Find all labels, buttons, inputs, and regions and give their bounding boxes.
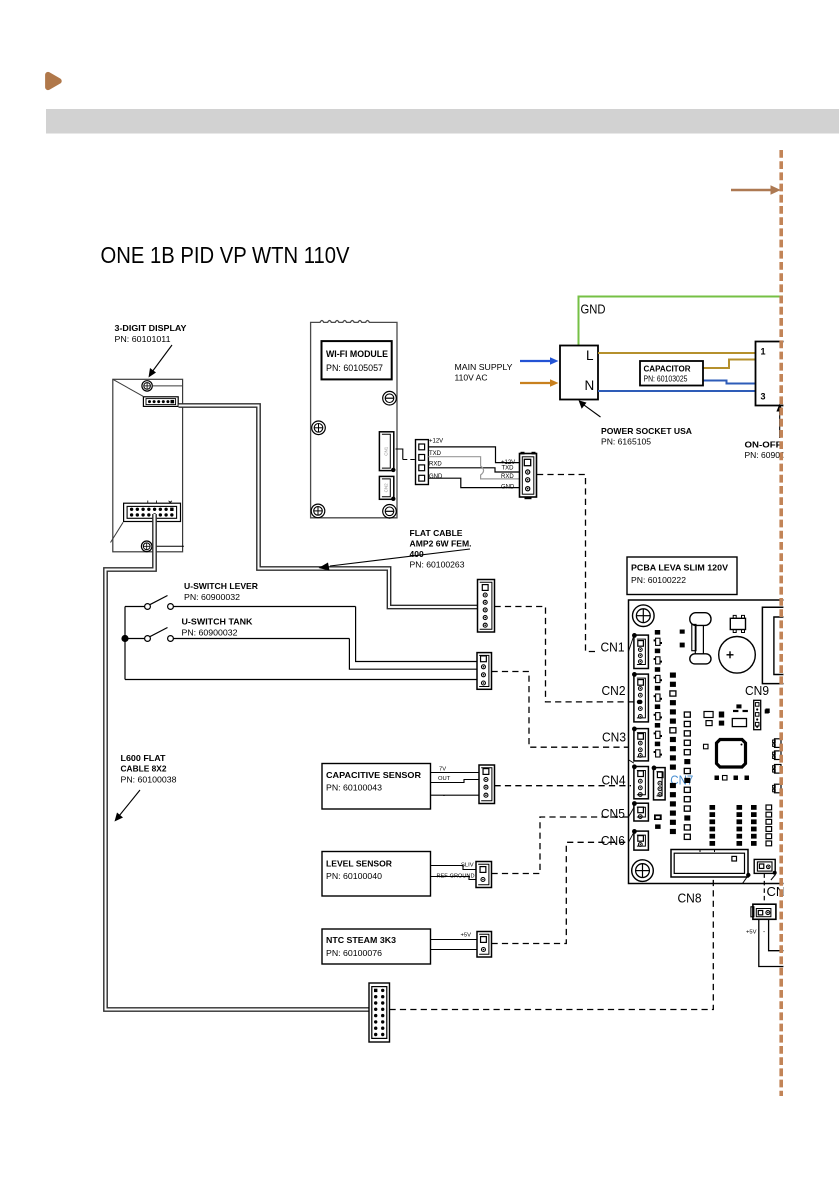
svg-text:PN: 60100222: PN: 60100222: [631, 575, 686, 585]
svg-text:WI-FI MODULE: WI-FI MODULE: [326, 349, 388, 359]
svg-text:400: 400: [410, 549, 424, 559]
svg-text:3: 3: [761, 392, 766, 402]
svg-text:+12V: +12V: [429, 439, 443, 445]
svg-text:POWER SOCKET USA: POWER SOCKET USA: [601, 426, 692, 436]
svg-text:U-SWITCH TANK: U-SWITCH TANK: [182, 617, 254, 627]
svg-text:+5V: +5V: [746, 930, 757, 936]
svg-text:FLAT CABLE: FLAT CABLE: [410, 528, 463, 538]
svg-text:1: 1: [761, 347, 766, 357]
svg-text:CN3: CN3: [602, 730, 626, 745]
svg-text:CAPACITIVE SENSOR: CAPACITIVE SENSOR: [326, 770, 421, 780]
svg-text:CN1: CN1: [384, 446, 389, 455]
svg-text:L600 FLAT: L600 FLAT: [121, 753, 167, 763]
svg-text:CN1: CN1: [601, 640, 625, 655]
svg-text:3-DIGIT DISPLAY: 3-DIGIT DISPLAY: [115, 323, 187, 333]
svg-text:PN: 60100263: PN: 60100263: [410, 560, 465, 570]
svg-text:ONE 1B PID VP WTN 110V: ONE 1B PID VP WTN 110V: [101, 242, 350, 268]
svg-text:L: L: [586, 348, 594, 363]
svg-text:GND: GND: [581, 302, 606, 317]
svg-text:PN: 60105057: PN: 60105057: [326, 363, 383, 373]
svg-text:CN6: CN6: [601, 833, 625, 848]
svg-text:RXD: RXD: [429, 462, 442, 468]
svg-text:PN: 60100038: PN: 60100038: [121, 775, 177, 785]
svg-text:MAIN SUPPLY: MAIN SUPPLY: [455, 362, 513, 372]
svg-text:PN: 60101011: PN: 60101011: [115, 334, 171, 344]
svg-text:TXD: TXD: [502, 466, 515, 472]
svg-text:PN: 60103025: PN: 60103025: [644, 375, 689, 384]
svg-text:-: -: [443, 793, 445, 799]
svg-text:N: N: [585, 378, 595, 393]
svg-text:CAPACITOR: CAPACITOR: [644, 365, 691, 374]
svg-text:PN: 60900032: PN: 60900032: [182, 628, 238, 638]
svg-text:110V AC: 110V AC: [455, 373, 488, 383]
svg-text:CN8: CN8: [678, 891, 702, 906]
svg-text:CN2: CN2: [602, 683, 626, 698]
svg-text:RXD: RXD: [501, 474, 514, 480]
svg-text:OUT: OUT: [438, 776, 451, 782]
svg-text:PN: 60900032: PN: 60900032: [184, 592, 240, 602]
svg-text:PN: 60100043: PN: 60100043: [326, 783, 382, 793]
svg-text:CN4: CN4: [602, 773, 626, 788]
svg-text:CN2: CN2: [384, 483, 389, 492]
svg-text:GND: GND: [501, 485, 515, 491]
svg-text:CN5: CN5: [601, 806, 625, 821]
svg-text:-: -: [763, 929, 765, 936]
svg-text:+5V: +5V: [461, 933, 472, 939]
svg-text:AMP2 6W FEM.: AMP2 6W FEM.: [410, 539, 472, 549]
svg-text:7V: 7V: [439, 767, 446, 773]
svg-text:U-SWITCH LEVER: U-SWITCH LEVER: [184, 581, 258, 591]
svg-text:NTC STEAM 3K3: NTC STEAM 3K3: [326, 935, 396, 945]
svg-text:CN9: CN9: [745, 683, 769, 698]
svg-text:LEVEL SENSOR: LEVEL SENSOR: [326, 859, 392, 869]
svg-text:GND: GND: [429, 474, 443, 480]
svg-text:PN: 60100076: PN: 60100076: [326, 948, 382, 958]
svg-text:CABLE 8X2: CABLE 8X2: [121, 764, 167, 774]
svg-text:PN: 6165105: PN: 6165105: [601, 437, 651, 447]
svg-text:PN: 60100040: PN: 60100040: [326, 871, 382, 881]
svg-text:PCBA LEVA SLIM 120V: PCBA LEVA SLIM 120V: [631, 563, 728, 573]
svg-text:ON-OFF: ON-OFF: [745, 440, 782, 450]
